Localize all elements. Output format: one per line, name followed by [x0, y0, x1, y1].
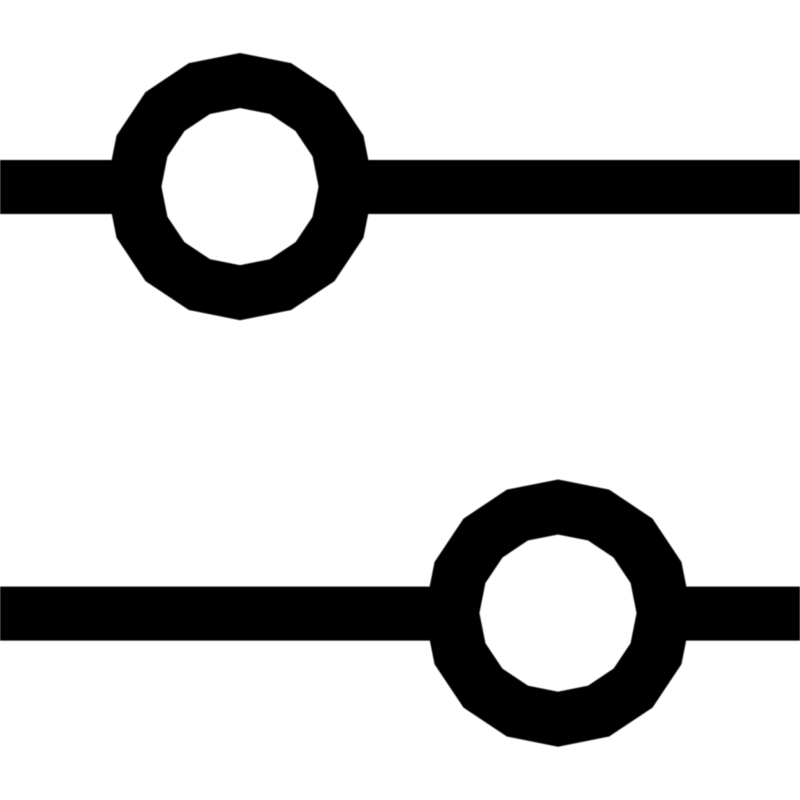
node B bottom slider ring: [452, 507, 664, 719]
wire bottom horizontal line: [0, 587, 800, 641]
wire top horizontal line: [0, 160, 800, 214]
node A top slider ring: [134, 81, 346, 293]
